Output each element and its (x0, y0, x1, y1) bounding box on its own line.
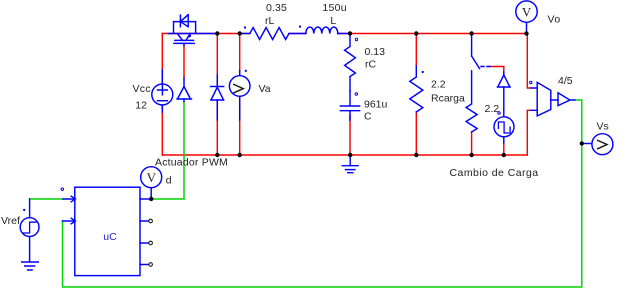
junction diode top rail (215, 31, 219, 35)
IGBT emitter/collector slants (177, 34, 190, 40)
wire bottom rail (162, 154, 527, 156)
svg-text:Vcc: Vcc (133, 83, 151, 95)
svg-text:12: 12 (135, 99, 147, 111)
capacitor C (340, 91, 359, 120)
op-amp block 4/5 (531, 82, 575, 116)
svg-text:rC: rC (365, 59, 376, 71)
marker dot rL (244, 27, 246, 29)
wire Vcc branch vertical (161, 34, 163, 156)
uC outputs 2-4 stubs (140, 221, 149, 265)
marker dot L (299, 26, 301, 28)
svg-text:Rcarga: Rcarga (431, 93, 465, 105)
wire green gate feedback from uC (151, 102, 184, 200)
wire switch branch lower (471, 132, 473, 155)
svg-text:V: V (522, 4, 532, 19)
svg-text:Cambio de Carga: Cambio de Carga (450, 167, 539, 179)
svg-text:4/5: 4/5 (558, 75, 573, 87)
switch S1 (466, 34, 490, 133)
svg-text:C: C (364, 111, 372, 123)
wire op-amp bottom input (527, 110, 531, 155)
marker circle rC (355, 38, 357, 40)
marker dot Va (245, 70, 247, 72)
svg-text:rL: rL (265, 15, 274, 27)
voltage sensor Va (229, 71, 250, 120)
wire diode branch vertical (216, 34, 218, 156)
svg-text:0.35: 0.35 (266, 2, 287, 14)
wire Rcarga branch (415, 34, 417, 156)
resistor rC (345, 34, 356, 92)
svg-text:2.2: 2.2 (431, 78, 446, 90)
marker circle uC input (61, 188, 63, 190)
source Vcc (152, 70, 173, 112)
svg-text:Vo: Vo (548, 13, 561, 25)
junction Vo voltmeter top rail (524, 31, 528, 35)
wire Va branch vertical (239, 34, 241, 156)
junction C/ground bottom rail (348, 153, 352, 157)
uC input 2 (63, 218, 76, 224)
IGBT plates (174, 40, 194, 43)
junction Rcarga top rail (414, 31, 418, 35)
square wave source Vsq (494, 117, 514, 143)
svg-text:Actuador PWM: Actuador PWM (155, 157, 228, 169)
voltmeter d (141, 167, 162, 199)
uC output circles (149, 219, 153, 223)
junction node d (uC output 1) (149, 197, 153, 201)
junction square source bottom rail (502, 153, 506, 157)
marker dot Vref (23, 209, 25, 211)
inductor L (306, 27, 349, 33)
junction Va top rail (238, 31, 242, 35)
uC block (63, 187, 152, 275)
junction Rcarga bottom rail (414, 153, 418, 157)
wire C branch lower (349, 115, 351, 155)
marker dot Rcarga (422, 71, 424, 73)
on-off controller U1 (IGBT gate) (177, 78, 192, 102)
wire switch gate (490, 67, 504, 73)
marker circle op-amp (530, 81, 532, 83)
resistor rL (241, 28, 307, 40)
resistor Rcarga (410, 66, 423, 112)
svg-text:V: V (147, 170, 157, 185)
IGBT Q1 body (169, 15, 217, 46)
svg-text:150u: 150u (322, 2, 347, 14)
svg-text:Va: Va (259, 83, 271, 95)
wire square source branch lower (503, 143, 505, 155)
wire IGBT gate (183, 46, 185, 78)
svg-text:Vs: Vs (597, 121, 609, 133)
svg-text:L: L (330, 15, 336, 27)
voltmeter Vo (516, 1, 537, 34)
junction switch bottom rail (469, 153, 473, 157)
IGBT arrow (187, 34, 191, 38)
junction Va bottom rail (238, 153, 242, 157)
junction diode bottom rail (215, 153, 219, 157)
svg-text:uC: uC (103, 231, 117, 243)
svg-text:2.2: 2.2 (485, 103, 500, 115)
junction node Vs (580, 141, 584, 145)
svg-text:d: d (166, 174, 172, 186)
IGBT anti-parallel diode (179, 15, 181, 27)
on-off controller U2 (load switch) (497, 72, 510, 117)
wire top rail (162, 33, 527, 35)
junction switch top rail (469, 31, 473, 35)
uC input 1 (63, 196, 75, 202)
svg-text:0.13: 0.13 (365, 46, 386, 58)
junction rC top rail (node Vo) (348, 31, 352, 35)
marker circle C (355, 93, 357, 95)
wire op-amp top input (527, 34, 531, 89)
voltage sensor Vs (584, 134, 613, 155)
wire green Vref to uC input1 (30, 198, 63, 200)
marker circle Vsq (498, 112, 500, 114)
diode D1 (211, 75, 224, 120)
svg-text:Vref: Vref (1, 215, 20, 227)
ground main (342, 155, 358, 173)
uC output 1 (140, 198, 151, 200)
wire green op-amp output down (63, 100, 582, 287)
svg-text:961u: 961u (364, 99, 388, 111)
source Vref (20, 199, 39, 270)
